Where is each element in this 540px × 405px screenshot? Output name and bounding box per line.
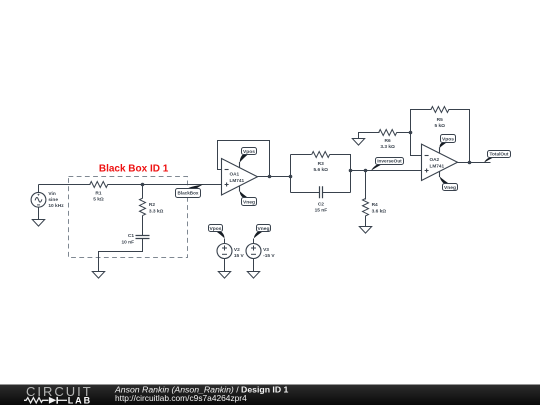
wire V3 top stub — [253, 239, 255, 244]
label R2 — [149, 202, 164, 214]
wire node to R2 — [142, 185, 144, 199]
resistor R5 — [431, 107, 449, 113]
node R6 junction — [409, 131, 413, 135]
wire RC bottom right — [323, 192, 351, 194]
svg-text:Black Box ID 1: Black Box ID 1 — [99, 164, 169, 175]
svg-text:V3: V3 — [263, 247, 269, 253]
svg-text:R1: R1 — [95, 191, 101, 197]
wire Vin top stub — [38, 185, 40, 193]
resistor R6 — [379, 130, 397, 136]
flag InverseOut — [371, 158, 403, 171]
wire RC bottom left — [291, 192, 320, 194]
wire V3 bottom stub — [253, 259, 255, 272]
svg-text:5 kΩ: 5 kΩ — [434, 123, 445, 129]
ground R6 — [352, 139, 364, 146]
svg-text:OA1: OA1 — [230, 171, 240, 176]
op-amp OA1 — [222, 159, 258, 196]
wire R2 to C1 — [142, 216, 144, 236]
svg-text:5 kΩ: 5 kΩ — [93, 197, 104, 203]
svg-text:5.6 kΩ: 5.6 kΩ — [313, 167, 328, 173]
footer text — [114, 384, 289, 403]
label C2 — [315, 202, 328, 214]
svg-text:Vpos: Vpos — [243, 149, 255, 155]
svg-text:Vneg: Vneg — [243, 199, 255, 205]
label V3 — [263, 247, 275, 259]
wire RC left rail — [290, 155, 292, 193]
svg-text:R6: R6 — [385, 138, 391, 144]
wire node to R4 — [365, 171, 367, 200]
voltage source V2 — [217, 244, 232, 259]
svg-text:3.6 kΩ: 3.6 kΩ — [372, 208, 387, 214]
resistor R3 — [312, 152, 330, 158]
svg-text:10 kHz: 10 kHz — [48, 203, 64, 209]
label R1 — [93, 191, 104, 203]
wire OA2 output — [458, 162, 491, 164]
svg-text:Vin: Vin — [48, 191, 55, 197]
wire C1 to ground — [99, 239, 143, 273]
flag Vneg OA2 — [440, 172, 458, 191]
svg-text:3.3 kΩ: 3.3 kΩ — [380, 144, 395, 150]
voltage source V3 — [246, 244, 261, 259]
svg-text:R2: R2 — [149, 202, 155, 208]
node R4 junction — [364, 169, 368, 173]
flag TotalOut — [484, 151, 510, 163]
flag Vneg V3 — [254, 225, 271, 239]
label Vin — [48, 191, 64, 209]
ground Vin — [32, 220, 44, 227]
wire OA2 feedback right — [449, 110, 470, 163]
wire OA1 output — [258, 176, 291, 178]
svg-text:OA2: OA2 — [430, 157, 440, 162]
svg-text:sine: sine — [48, 197, 58, 203]
node OA2 output junction — [468, 161, 472, 165]
black box title — [99, 164, 169, 175]
capacitor C2 — [320, 186, 323, 198]
svg-text:Vpos: Vpos — [210, 226, 222, 232]
label R3 — [313, 161, 328, 173]
node RC left junction — [289, 175, 293, 179]
flag BlackBox — [176, 185, 204, 198]
wire R1 to OA1 input — [108, 184, 222, 186]
resistor R1 — [90, 182, 108, 188]
wire ground to R6 — [359, 133, 380, 139]
wire Vin bottom stub — [38, 208, 40, 220]
svg-text:15 nF: 15 nF — [315, 208, 328, 214]
svg-text:3.3 kΩ: 3.3 kΩ — [149, 209, 164, 215]
svg-text:http://circuitlab.com/c9s7a426: http://circuitlab.com/c9s7a4264zpr4 — [115, 393, 247, 403]
node RC right junction — [349, 169, 353, 173]
svg-text:BlackBox: BlackBox — [178, 191, 199, 196]
svg-text:15 V: 15 V — [234, 253, 245, 259]
svg-text:-15 V: -15 V — [263, 253, 275, 259]
svg-text:C2: C2 — [318, 202, 324, 208]
svg-text:Vneg: Vneg — [258, 226, 270, 232]
svg-text:LAB: LAB — [68, 396, 93, 405]
svg-text:Vpos: Vpos — [442, 136, 454, 142]
wire RC top left — [291, 154, 312, 156]
svg-text:V2: V2 — [234, 247, 240, 253]
wire V2 bottom stub — [224, 259, 226, 272]
flag Vneg OA1 — [240, 186, 257, 206]
svg-text:C1: C1 — [128, 233, 134, 239]
svg-text:R3: R3 — [318, 161, 324, 167]
svg-text:R4: R4 — [372, 202, 378, 208]
svg-text:R5: R5 — [437, 117, 443, 123]
label R4 — [372, 202, 387, 214]
wire OA1 feedback — [218, 141, 270, 177]
black box boundary (dashed) — [69, 177, 188, 258]
label V2 — [234, 247, 245, 259]
resistor R2 — [140, 198, 146, 215]
label R5 — [434, 117, 445, 129]
wire RC top right — [330, 155, 351, 193]
label R6 — [380, 138, 395, 150]
svg-text:InverseOut: InverseOut — [377, 159, 402, 164]
ground R4 — [359, 227, 371, 234]
wire main input rail — [39, 184, 91, 186]
voltage source Vin — [31, 192, 46, 207]
flag Vpos OA1 — [240, 148, 257, 168]
wire R4 to ground — [365, 216, 367, 227]
ground V3 — [247, 272, 259, 279]
label C1 — [121, 233, 134, 245]
svg-text:Vneg: Vneg — [444, 185, 456, 191]
flag Vpos OA2 — [440, 135, 456, 153]
svg-text:LM741: LM741 — [430, 163, 445, 168]
svg-text:TotalOut: TotalOut — [490, 152, 509, 157]
CircuitLab logo — [24, 384, 93, 405]
flag Vpos V2 — [209, 225, 225, 239]
ground V2 — [218, 272, 230, 279]
node input junction — [141, 183, 145, 187]
ground black box — [92, 272, 104, 279]
capacitor C1 — [136, 236, 150, 239]
op-amp OA2 — [422, 144, 458, 180]
wire R6 to feedback node — [397, 132, 411, 134]
wire RC to OA2 input — [351, 170, 422, 172]
svg-text:10 nF: 10 nF — [121, 239, 134, 245]
resistor R4 — [363, 199, 369, 216]
wire V2 top stub — [224, 239, 226, 244]
svg-text:LM741: LM741 — [230, 178, 245, 183]
footer bar — [0, 385, 540, 405]
wire OA2 feedback left — [411, 110, 432, 156]
node OA1 output junction — [268, 175, 272, 179]
